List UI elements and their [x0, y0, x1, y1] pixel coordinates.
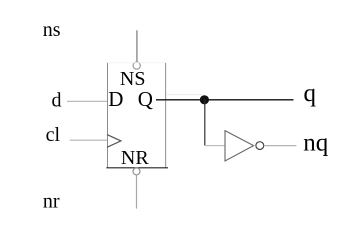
svg-text:D: D	[108, 87, 123, 111]
flip-flop U1 box right edge	[165, 63, 167, 168]
clock edge triangle	[107, 135, 121, 148]
wire Q pin stub (very faint)	[166, 94, 203, 96]
svg-text:q: q	[304, 80, 317, 107]
svg-text:d: d	[52, 90, 62, 112]
wire nr input vertical	[136, 175, 138, 209]
svg-text:ns: ns	[43, 19, 61, 41]
flip-flop U1 box bottom edge	[106, 167, 168, 169]
wire nq output	[264, 145, 297, 147]
wire cl input	[70, 139, 107, 141]
junction dot node q	[200, 95, 209, 104]
wire inverter input	[205, 145, 225, 147]
flip-flop U1 box left edge	[107, 63, 109, 168]
wire ns input vertical	[136, 30, 138, 62]
svg-text:Q: Q	[138, 87, 153, 111]
wire Q output	[156, 99, 294, 101]
wire d input	[67, 100, 107, 102]
svg-text:NR: NR	[121, 147, 149, 169]
inverter U2 triangle	[225, 131, 254, 161]
bubble NR active-low reset pin	[133, 168, 140, 175]
wire junction down to inverter	[204, 100, 206, 146]
svg-text:nr: nr	[43, 191, 60, 213]
svg-text:nq: nq	[303, 130, 329, 157]
flip-flop U1 box top edge	[107, 62, 166, 64]
bubble NS active-low set pin	[133, 62, 140, 69]
inverter U2 output bubble	[256, 142, 264, 150]
svg-text:cl: cl	[46, 124, 61, 146]
